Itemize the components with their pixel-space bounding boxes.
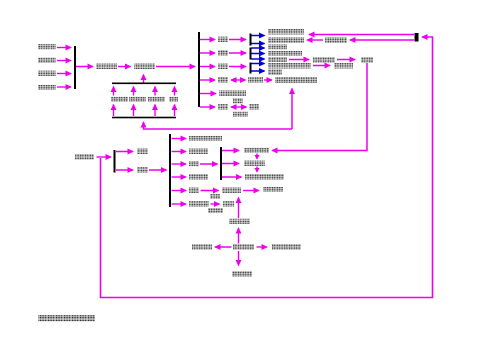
wire 市场→br1 [229,39,246,41]
node 点读笔生产 [244,161,265,167]
wire boxup-bot@113.5 [113,105,115,117]
node 预实验 [233,112,248,117]
wire box→研发部门 [143,75,145,83]
node 文字编辑 [268,45,287,50]
wire bar5→成本核算 [172,138,187,140]
node 包装盒 [268,70,282,76]
wire 音乐编辑→录音合成 [289,59,309,61]
wire bar5→下厂 [172,163,187,165]
node 合成(box) [169,97,178,102]
node 下厂 [189,161,199,167]
node 成本费用的预算 [268,38,304,44]
wire 营销部门→下订单 [238,228,240,244]
wire 研发部门→bar2 [156,66,195,68]
node 信息收集 [38,44,56,50]
wire bar2→设计 [200,66,215,68]
wire 入库→物流发货 [201,190,219,192]
wire boxup-bot@133.5 [133,105,135,117]
wire bar5→质量监控 [172,176,187,178]
wire boxup-top@155 [154,87,156,96]
wire 出版社→出版合同 [264,79,272,81]
bar collector4 [114,150,116,173]
node 开本、版张确定 [268,29,304,35]
wire bar4→版权 [116,151,133,153]
bar boxtop [112,83,176,85]
wire 营销部门→促销方案 [257,246,268,248]
node 核对账目 [189,201,209,207]
wire 信息收集→bar1 [57,47,71,49]
wire big-loop [101,37,433,298]
wire bar3→数量和价格 [350,39,414,41]
node 图片编辑(box) [148,97,165,102]
wire 信息加工→bar1 [57,60,71,62]
node 出版合同（书号） [275,77,317,83]
node 营销部门 [233,244,254,250]
node 出版社 [248,77,263,83]
wire br1→开本 [252,35,265,37]
wire 三审↔出版社 [231,79,246,81]
node 音乐编辑(box) [129,97,146,102]
wire bar2→三审 [200,79,215,81]
wire boxup-top@133.5 [133,87,135,96]
node 质量监控 [189,174,208,180]
bar boxbottom [112,117,176,119]
node 点读制作 [334,63,353,69]
wire br2→音乐编辑 [252,58,265,60]
node 录音合成 [313,57,335,63]
node 数量和价格 [325,38,347,44]
node 复制 [361,57,373,63]
node 修订、完稿 [219,91,246,97]
wire br3→包装盒 [252,70,265,72]
node 三审 [218,77,228,83]
bar collector2 [198,32,200,107]
wire bar4→印务 [116,169,133,171]
wire bar5→印前调度 [172,151,187,153]
wire br2→文字编辑 [252,47,265,49]
node 选题论证 [38,85,56,91]
wire br1→成本 [252,43,265,45]
node 销售系统 [263,187,283,193]
node 选题立项 [96,64,117,70]
node 入库 [189,188,199,194]
node 编辑 [218,50,228,56]
wire 物流发货→销售系统 [243,190,259,192]
wire 选题预测→bar1 [57,73,71,75]
wire 选题立项→研发部门 [118,66,131,68]
wire br3→内文 [252,63,265,65]
wire 设计→br3 [229,66,246,68]
node 促销方案策划 [272,244,301,250]
wire bar2→市场 [200,39,215,41]
wire 连接→编辑箱 [144,122,293,129]
wire 营销部门→市场调研 [238,251,240,266]
bar collector1 [74,46,76,89]
wire boxup-bot@155 [154,105,156,117]
wire 数量和价格→成本费用 [307,39,323,41]
wire bar5→核对账目 [172,203,187,205]
node 图片编辑、传输 [268,51,302,57]
bar collector5 [169,134,171,207]
bar bracket1 [250,34,252,46]
wire 点读笔→图书包装 [256,167,258,172]
wire bar3→开本 [309,34,414,36]
bar bar3 [415,33,419,42]
node 印厂 [249,104,259,110]
node 信息加工 [38,58,56,64]
node 下订单 [229,219,250,225]
wire 1校↔印厂 [231,106,247,108]
node 盒式磁带生产 [244,148,269,154]
node 预付款 [208,208,223,213]
node 选题预测 [38,71,56,77]
node 技术支持 [192,244,212,250]
wire 录音合成→复制 [337,59,355,61]
wire 磁带→点读笔 [256,154,258,159]
node 版权 [137,149,148,155]
node 生产部门 [75,154,94,160]
wire boxup-top@113.5 [113,87,115,96]
wire 连接→出版合同 [291,89,293,130]
bar collector6 [220,147,222,180]
node 音乐编辑 [268,57,287,62]
wire bar5→入库 [172,190,187,192]
wire 内文→点读制作 [313,65,330,67]
node 付样 [233,99,243,104]
node 物流发货 [222,188,241,194]
node 成本核算、调价 [189,136,222,142]
bar bracket3 [250,63,252,74]
node 结算 [223,201,234,207]
wire boxup-top@174.5 [174,87,176,96]
node 内文、封面版式设计 [268,63,311,69]
wire bar2→编辑 [200,52,215,54]
node 市场 [218,37,228,43]
node 研发部门 [134,64,155,70]
wire 选题论证→bar1 [57,86,71,88]
node 印前调度 [189,149,208,155]
node 文字编辑(box) [111,97,128,102]
wire bar2→1校 [200,106,215,108]
wire bar6→盒式磁带生产 [222,150,239,152]
wire bar6→图书包装 [222,176,242,178]
wire br2→图片编辑 [252,53,265,55]
wire 下厂→bar6 [200,163,218,165]
wire 生产部门→bar4 [97,156,112,158]
node 1校 [218,104,228,110]
wire 编辑→br2 [229,52,246,54]
wire 下订单→物流发货 [238,198,240,219]
node 财务 [210,194,220,199]
wire bar1→选题立项 [76,66,93,68]
wire boxup-bot@174.5 [174,105,176,117]
wire bar2→修订完稿 [200,93,216,95]
node caption 有声读物出版流程图 [38,315,95,322]
node 市场调研 [232,271,252,277]
wire 印务→bar5 [149,169,167,171]
bar bracket2 [250,48,252,60]
wire bar6→点读笔生产 [222,163,239,165]
node 设计 [218,64,228,70]
node 印务 [137,167,148,173]
wire 复制→盒式磁带生产 [272,63,367,151]
wire 营销部门→技术支持 [215,246,232,248]
wire 核对账目→结算 [211,203,220,205]
node 图书包装监控生产 [245,174,284,180]
